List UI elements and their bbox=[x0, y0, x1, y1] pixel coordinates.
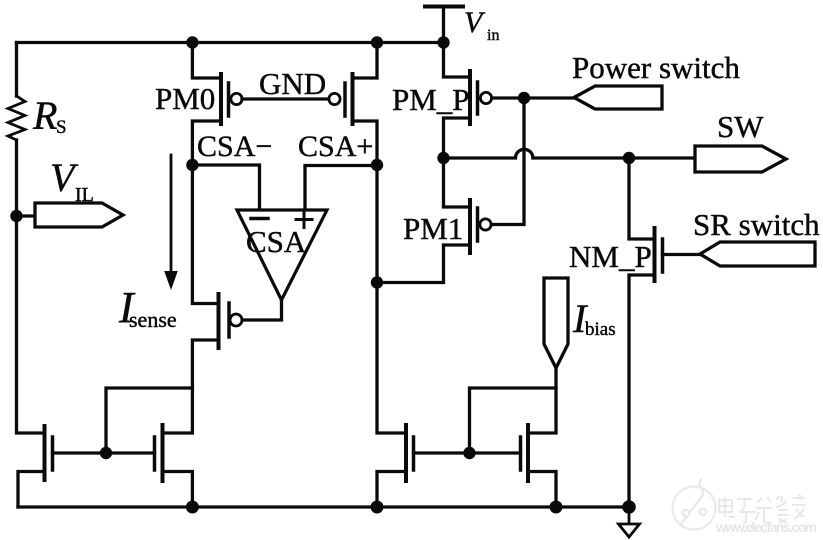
wire PM1 drain from SW node bbox=[444, 158, 469, 207]
wire NMOS B source to rail bbox=[163, 472, 193, 508]
connector Power switch flag bbox=[574, 86, 662, 109]
wire left column upper bbox=[15, 43, 18, 97]
transistor NM_P bbox=[655, 228, 663, 281]
node rail-PM0 junction bbox=[186, 36, 198, 48]
watermark elecfans logo bbox=[673, 479, 716, 530]
wire PM_P source down to SW node bbox=[444, 118, 469, 158]
svg-text:in: in bbox=[487, 27, 499, 44]
wire PM0b source down to CSA+ node bbox=[353, 121, 378, 165]
node rail junction 1 bbox=[186, 501, 199, 514]
op-amp plus sign bbox=[296, 212, 312, 228]
wire CSA- node down to sense transistor bbox=[192, 165, 216, 304]
wire mirror1 gate line bbox=[53, 451, 155, 454]
wire NM_P gate to SR switch bbox=[663, 253, 701, 256]
annotation Isense arrow bbox=[164, 155, 178, 290]
svg-text:PM1: PM1 bbox=[403, 211, 463, 246]
wire NM_P drain from SW node bbox=[629, 158, 652, 239]
transistor PM0 drain wire bbox=[192, 43, 219, 79]
watermark elecfans chinese glyph shapes bbox=[718, 494, 806, 523]
wire CSA- input bbox=[192, 165, 259, 210]
op-amp CSA triangle bbox=[237, 210, 327, 300]
wire top rail Vin bbox=[17, 41, 445, 44]
connector SW flag bbox=[695, 146, 786, 172]
node rail junction 2 bbox=[371, 501, 384, 514]
wire Vin bar to rail bbox=[442, 7, 445, 43]
wire CSA+ node down to mirror2 bbox=[377, 165, 403, 433]
connector VIL flag bbox=[35, 203, 123, 227]
node mirror2 gate junction bbox=[463, 447, 475, 459]
node rail-PM0b junction bbox=[371, 36, 383, 48]
node ground junction bbox=[622, 500, 636, 514]
svg-text:IL: IL bbox=[75, 184, 94, 206]
ground symbol bbox=[619, 507, 640, 537]
svg-text:V: V bbox=[464, 6, 486, 39]
wire CSA output to sense transistor gate bbox=[244, 300, 282, 320]
wire mirror2 gate line bbox=[414, 451, 521, 454]
svg-text:CSA: CSA bbox=[246, 224, 307, 259]
wire NMOS A source to rail bbox=[18, 472, 45, 508]
transistor NMOS B (mirror1 right) bbox=[155, 425, 163, 481]
wire PM0b drain to rail bbox=[353, 43, 378, 79]
svg-text:SW: SW bbox=[717, 109, 764, 144]
connector SR switch flag bbox=[700, 242, 815, 266]
svg-text:sense: sense bbox=[129, 307, 177, 332]
wire PM0 source down to CSA- node bbox=[192, 121, 219, 165]
svg-text:PM0: PM0 bbox=[155, 81, 215, 116]
transistor Qsense bbox=[219, 294, 243, 348]
node SW-NMP junction bbox=[623, 152, 635, 164]
svg-text:GND: GND bbox=[259, 66, 326, 101]
op-amp minus sign bbox=[251, 217, 268, 221]
node VIL tap junction bbox=[10, 210, 22, 222]
node Vin junction bbox=[437, 36, 449, 48]
node CSA- junction bbox=[186, 159, 198, 171]
transistor PM_P bbox=[470, 71, 492, 124]
wire VIL stub bbox=[17, 214, 36, 217]
transistor PM_P drain wire from Vin bbox=[444, 43, 469, 78]
wire NMOS D source to rail bbox=[528, 472, 556, 508]
wire SW line with hop bbox=[444, 149, 695, 158]
svg-text:R: R bbox=[32, 93, 57, 138]
wire CSA+ input bbox=[305, 166, 377, 211]
svg-text:NM_P: NM_P bbox=[569, 239, 652, 274]
svg-text:Power switch: Power switch bbox=[572, 50, 740, 85]
node CSA+ junction bbox=[371, 159, 383, 171]
wire power switch node down to PM1 gate (crosses SW line) bbox=[491, 98, 524, 225]
transistor PM1 bbox=[470, 200, 491, 253]
wire NM_P source to ground bbox=[629, 275, 655, 507]
wire bottom rail bbox=[18, 505, 629, 508]
svg-text:bias: bias bbox=[585, 319, 616, 340]
wire PM_P gate to Power switch bbox=[492, 96, 574, 99]
node SW start junction bbox=[437, 152, 449, 164]
transistor NMOS D (mirror2 right) bbox=[521, 425, 529, 481]
transistor PM0 bbox=[221, 74, 242, 124]
node power switch gate junction bbox=[518, 92, 530, 104]
transistor PM0b (GND pair right, mirrored) bbox=[329, 74, 353, 124]
connector Ibias flag bbox=[544, 278, 568, 368]
wire GND gate wire between bubbles bbox=[242, 97, 329, 100]
wire NMOS C source to rail bbox=[377, 472, 406, 508]
node rail junction 3 bbox=[550, 501, 563, 514]
wire mirror2 gate tie bbox=[470, 388, 557, 453]
svg-text:PM_P: PM_P bbox=[392, 82, 470, 117]
wire PM1 source to CSA+ column bbox=[377, 245, 468, 283]
svg-text:CSA+: CSA+ bbox=[298, 130, 373, 163]
transistor NMOS C (mirror2 left) bbox=[406, 425, 414, 481]
svg-text:CSA−: CSA− bbox=[197, 130, 272, 163]
transistor NMOS A (mirror1 left) bbox=[45, 426, 53, 480]
node PM1 source junction bbox=[371, 276, 383, 288]
svg-text:www.elecfans.com: www.elecfans.com bbox=[715, 520, 817, 535]
wire RS bottom to NMOS A drain bbox=[17, 140, 44, 433]
svg-text:S: S bbox=[56, 117, 67, 138]
node mirror1 gate junction bbox=[100, 447, 112, 459]
svg-text:SR switch: SR switch bbox=[693, 207, 820, 242]
wire NMOS D drain bbox=[528, 368, 556, 433]
wire Qsense source down to NMOS B drain bbox=[165, 340, 216, 433]
wire mirror1 gate tie up and right bbox=[106, 388, 192, 453]
power symbol V_in T-bar bbox=[425, 5, 463, 9]
resistor RS bbox=[8, 96, 25, 140]
